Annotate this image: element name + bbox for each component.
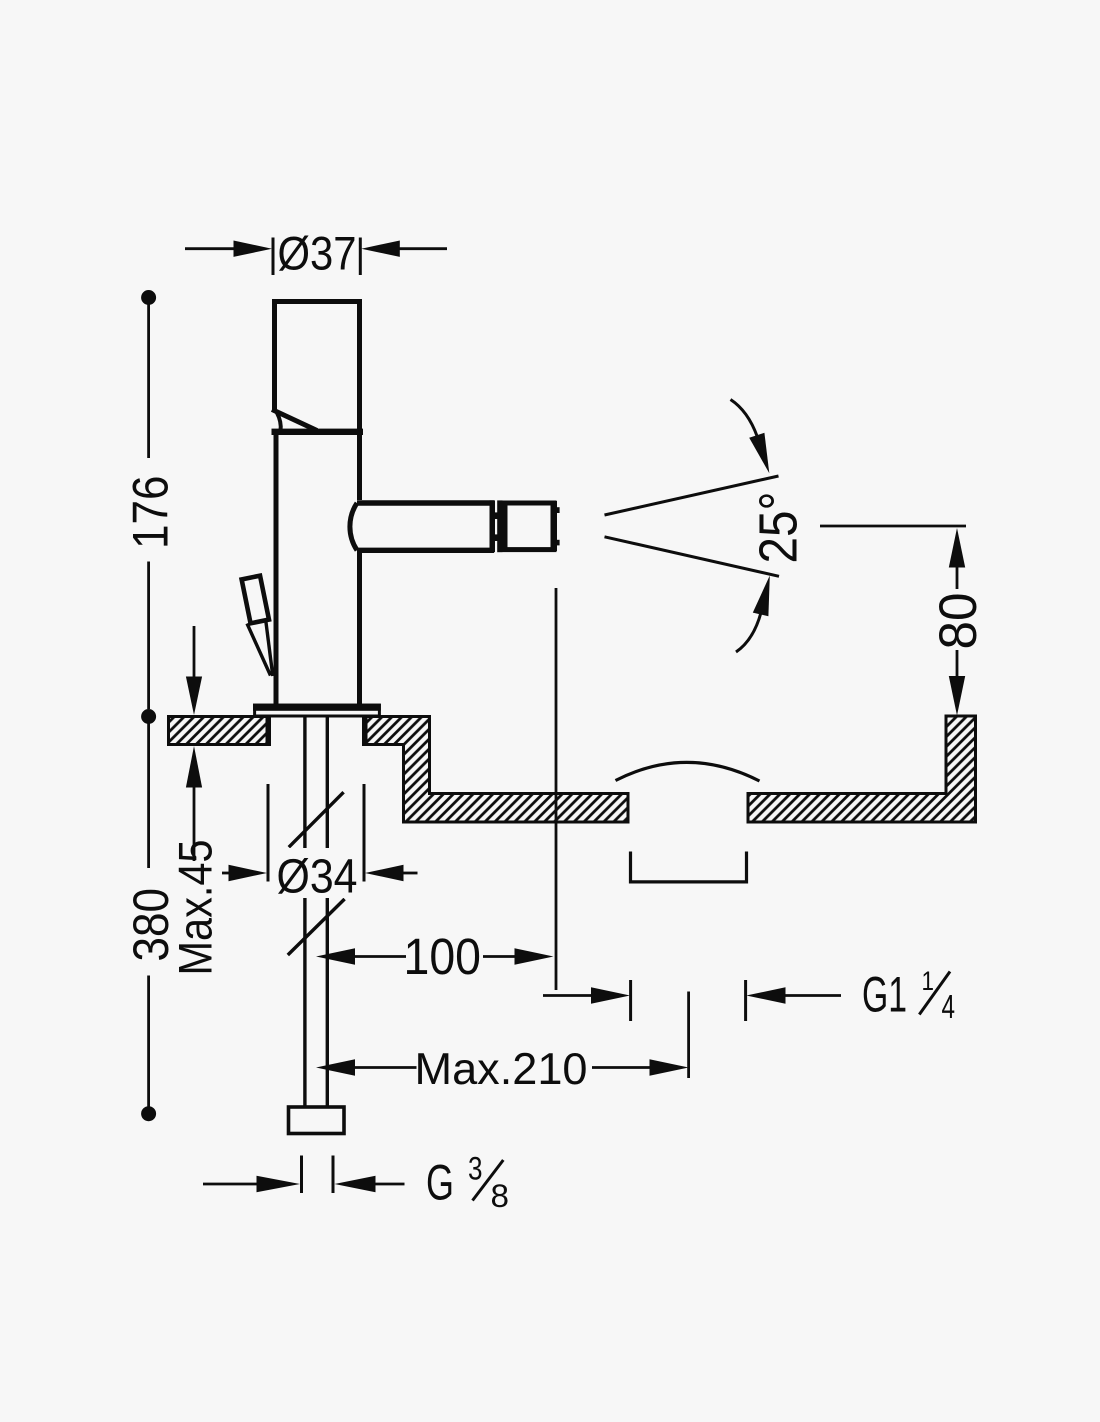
countertop left section (hatched): [169, 717, 268, 745]
dimension Ø37 tick right: [359, 238, 362, 276]
angle arc lower arrowhead: [753, 576, 770, 617]
svg-text:25°: 25°: [749, 492, 809, 564]
countertop right stepped section (hatched): [366, 717, 628, 823]
dimension 380 line upper: [147, 723, 150, 868]
dimension Ø34 extension left: [267, 784, 270, 882]
dimension Max.210 extension line: [687, 992, 690, 1079]
dimension Max.210 arrow right: [650, 1059, 689, 1075]
spray cone lower line: [605, 537, 780, 577]
angle arc lower: [736, 613, 761, 653]
spout joint bridge upper: [493, 512, 499, 519]
aerator nub lower: [557, 540, 560, 546]
svg-text:4: 4: [942, 988, 956, 1025]
dimension G1 1/4 arrow pointing right: [591, 987, 630, 1003]
supply pipe right: [326, 718, 329, 1107]
dimension Max.45 arrow up: [186, 746, 202, 788]
dimension Ø37 line right: [400, 247, 448, 250]
dimension Max.45 upper line: [193, 626, 196, 677]
dimension G3/8 arrow pointing right: [257, 1176, 301, 1192]
dimension Max.45 arrow down: [186, 677, 202, 716]
handle pin line right: [266, 619, 273, 677]
svg-text:80: 80: [929, 593, 988, 650]
faucet body right edge lower: [357, 552, 362, 705]
handle pin line left: [247, 624, 271, 676]
dimension Max.210 line right: [592, 1066, 650, 1069]
dimension Ø37 arrow left: [234, 241, 273, 257]
dimension G1 1/4 line right: [785, 994, 841, 997]
dimension 80 line lower: [956, 650, 959, 676]
dimension 380 bottom circle: [141, 1106, 156, 1121]
faucet body right edge upper: [357, 433, 362, 500]
aerator nub upper: [557, 507, 560, 513]
dimension G1 1/4 tick left: [629, 980, 632, 1021]
dimension 176 top circle: [141, 290, 156, 305]
spray cone upper line: [605, 476, 779, 515]
dimension Ø34 line left: [222, 872, 230, 875]
dimension G3/8 tick right: [332, 1156, 335, 1194]
label G3/8 fraction slash: [473, 1160, 504, 1201]
dimension 100 arrow left: [316, 948, 355, 964]
svg-text:G1: G1: [862, 967, 907, 1023]
supply pipe left: [303, 718, 306, 1107]
faucet cartridge joint line: [272, 429, 364, 435]
pipe break slash lower: [288, 899, 345, 955]
G3/8 connector block: [289, 1107, 345, 1134]
svg-text:100: 100: [404, 928, 482, 985]
faucet cap pivot arc: [277, 413, 281, 431]
dimension G1 1/4 tick right: [744, 980, 747, 1021]
faucet cap diagonal cut: [272, 410, 317, 431]
dimension 176 line upper: [147, 304, 150, 458]
dimension Max.210 line left: [354, 1066, 417, 1069]
dimension 176 line lower: [147, 562, 150, 710]
dimension 80 arrow up: [949, 528, 965, 568]
angle arc upper: [731, 400, 758, 437]
dimension G3/8 line right: [375, 1183, 405, 1186]
dimension G3/8 arrow pointing left: [335, 1176, 376, 1192]
dimension 80 arrow down: [949, 676, 965, 716]
faucet shank tube left edge in hole: [267, 718, 271, 747]
svg-text:8: 8: [491, 1178, 510, 1214]
dimension Ø34 extension right: [363, 784, 366, 882]
dimension 100 line left: [354, 955, 406, 958]
dimension G1 1/4 arrow pointing left: [746, 987, 785, 1003]
base flange outline: [255, 705, 380, 716]
pipe break slash upper: [289, 792, 344, 847]
svg-text:Max.210: Max.210: [415, 1045, 588, 1094]
spout joint bridge lower: [493, 534, 499, 541]
faucet body cap outline: [275, 302, 360, 434]
bidet bowl arc: [616, 762, 760, 781]
dimension 100 line right: [483, 955, 515, 958]
aerator outline: [505, 503, 554, 550]
dimension Max.45 lower line: [193, 787, 196, 861]
base flange top thick bar: [253, 704, 381, 711]
dimension 80 line upper: [956, 567, 959, 589]
spout tube top: [357, 500, 494, 505]
spout left cap arc: [350, 503, 357, 550]
spout axis reference line: [820, 525, 966, 528]
dimension Ø34 line right: [403, 872, 418, 875]
dimension Ø37 tick left: [272, 238, 275, 276]
svg-text:G: G: [426, 1155, 454, 1211]
dimension 100 extension line: [555, 588, 558, 990]
dimension 176 bottom circle: [141, 709, 156, 724]
label G1 fraction slash: [919, 972, 950, 1015]
faucet body left edge: [274, 435, 279, 704]
dimension 100 arrow right: [515, 948, 554, 964]
aerator right thick face: [551, 501, 558, 551]
dimension G3/8 line left: [203, 1183, 257, 1186]
dimension Ø37 arrow right: [361, 241, 400, 257]
faucet shank tube right edge in hole: [362, 718, 366, 747]
dimension Ø34 arrow left: [229, 865, 268, 881]
dimension 380 line lower: [147, 976, 150, 1107]
dimension G3/8 tick left: [300, 1156, 303, 1194]
angle arc upper arrowhead: [749, 433, 769, 474]
spout tube bottom: [357, 548, 494, 553]
dimension Ø34 label background: [278, 848, 356, 898]
dimension G1 1/4 line left: [543, 994, 592, 997]
svg-text:Max.45: Max.45: [170, 840, 223, 976]
drain pipe U outline: [631, 852, 747, 882]
svg-text:3: 3: [468, 1151, 483, 1187]
flush handle lever: [242, 576, 269, 624]
spout joint bar 2: [497, 500, 502, 552]
spout joint bar 1: [490, 500, 496, 552]
countertop lower-right section with upstand (hatched): [748, 716, 976, 822]
svg-text:176: 176: [123, 476, 179, 550]
dimension Ø37 line left: [185, 247, 234, 250]
svg-text:1: 1: [922, 966, 935, 996]
dimension Ø34 arrow right: [365, 865, 404, 881]
svg-text:Ø37: Ø37: [278, 227, 357, 280]
dimension Max.210 arrow left: [316, 1059, 355, 1075]
svg-text:Ø34: Ø34: [277, 851, 358, 904]
